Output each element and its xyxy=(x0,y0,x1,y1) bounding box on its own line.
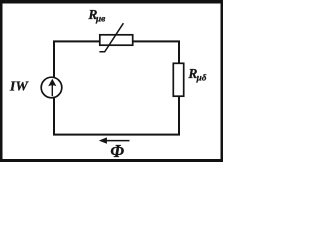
svg-text:Φ: Φ xyxy=(110,141,124,161)
svg-text:IW: IW xyxy=(9,79,29,94)
svg-text:μв: μв xyxy=(95,15,105,25)
svg-text:μδ: μδ xyxy=(196,74,207,84)
